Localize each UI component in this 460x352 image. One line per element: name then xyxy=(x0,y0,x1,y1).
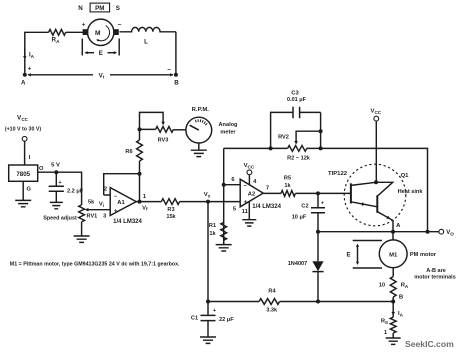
svg-text:C3: C3 xyxy=(291,91,299,97)
svg-text:M1: M1 xyxy=(389,252,398,258)
svg-text:Vi: Vi xyxy=(99,202,104,208)
resistor R4 xyxy=(259,288,280,313)
svg-text:+: + xyxy=(28,67,32,73)
capacitor C3 xyxy=(271,91,321,149)
pin 11 ground wire xyxy=(248,202,250,220)
motor symbol M xyxy=(82,19,122,45)
capacitor C2 xyxy=(292,193,325,231)
svg-text:R5: R5 xyxy=(284,175,291,181)
svg-text:G: G xyxy=(27,187,32,193)
node xyxy=(426,230,430,234)
svg-text:1N4007: 1N4007 xyxy=(288,261,308,267)
ground xyxy=(200,337,216,343)
ground xyxy=(191,150,207,156)
capacitor 2.2uF xyxy=(49,172,84,202)
svg-text:15k: 15k xyxy=(166,214,176,220)
pin 6 wire xyxy=(224,177,241,185)
svg-text:RV1: RV1 xyxy=(87,214,98,220)
PM field magnet box xyxy=(90,3,110,12)
svg-text:meter: meter xyxy=(220,130,236,136)
svg-text:+: + xyxy=(114,208,118,214)
svg-text:Q1: Q1 xyxy=(401,173,410,179)
pin label O xyxy=(39,166,44,172)
node Vf xyxy=(138,200,148,212)
wire feedback right xyxy=(307,148,428,231)
label N xyxy=(78,5,83,12)
svg-text:Speed adjust: Speed adjust xyxy=(43,216,77,222)
svg-text:Analog: Analog xyxy=(219,122,239,128)
svg-text:R2 ~ 12k: R2 ~ 12k xyxy=(287,156,311,162)
svg-text:Vt: Vt xyxy=(99,72,105,79)
svg-text:1: 1 xyxy=(143,194,147,200)
svg-text:1k: 1k xyxy=(209,231,216,237)
wire xyxy=(263,192,281,194)
terminal VO xyxy=(439,229,454,236)
VCC input terminal xyxy=(5,115,42,142)
svg-text:4: 4 xyxy=(253,179,257,185)
node xyxy=(316,300,320,304)
dimension E motor xyxy=(346,241,382,269)
node 5V xyxy=(51,163,60,175)
svg-text:VO: VO xyxy=(446,230,454,236)
pin label G xyxy=(27,187,32,193)
svg-text:3.3k: 3.3k xyxy=(266,307,278,313)
analog meter RPM xyxy=(186,107,212,143)
pin 7 label xyxy=(266,185,269,191)
svg-text:N: N xyxy=(78,5,83,12)
svg-text:+: + xyxy=(321,201,324,207)
node B xyxy=(391,295,403,304)
svg-text:−: − xyxy=(114,194,118,200)
svg-text:TIP122: TIP122 xyxy=(328,171,348,177)
svg-text:A-B are: A-B are xyxy=(426,268,446,274)
label Speed adjust xyxy=(43,216,77,222)
svg-text:R.P.M.: R.P.M. xyxy=(192,107,210,113)
label Vt bottom wire xyxy=(28,72,174,79)
svg-text:motor terminals: motor terminals xyxy=(414,275,456,281)
svg-text:RS: RS xyxy=(381,319,388,325)
svg-text:10: 10 xyxy=(379,283,385,289)
ground xyxy=(50,202,63,208)
ground xyxy=(74,236,90,242)
svg-text:VCC: VCC xyxy=(244,163,255,169)
svg-text:10 μF: 10 μF xyxy=(292,215,307,221)
wire pin6 branch xyxy=(223,148,225,244)
wire xyxy=(392,297,394,302)
potentiometer RV1 xyxy=(79,200,111,222)
feedback wire A1 xyxy=(104,174,140,195)
svg-text:22 μF: 22 μF xyxy=(219,317,234,323)
potentiometer RV3 xyxy=(140,112,174,143)
node Vx xyxy=(204,192,211,203)
wire xyxy=(392,302,394,318)
resistor R6 xyxy=(125,129,142,167)
wire xyxy=(392,268,394,277)
wire xyxy=(38,172,82,205)
label Analog meter xyxy=(219,122,239,136)
op-amp A2 xyxy=(240,179,263,207)
transistor T2 of Q1 xyxy=(376,182,393,231)
node collector junction xyxy=(374,180,378,184)
svg-text:C2: C2 xyxy=(301,204,308,210)
svg-text:7805: 7805 xyxy=(16,171,30,178)
ground xyxy=(216,245,232,251)
node B xyxy=(167,67,179,87)
svg-text:M: M xyxy=(95,30,101,37)
svg-text:5k: 5k xyxy=(88,200,95,206)
node xyxy=(319,129,323,133)
svg-text:E: E xyxy=(99,50,103,57)
pin 5 label xyxy=(233,207,237,213)
node xyxy=(222,183,226,187)
motor M1 xyxy=(379,240,407,268)
node xyxy=(269,146,273,150)
wire xyxy=(207,202,209,302)
svg-text:L: L xyxy=(144,39,148,46)
svg-text:S: S xyxy=(116,5,120,12)
wire xyxy=(81,222,83,236)
dimension E motor model xyxy=(82,39,119,58)
current arrow IA xyxy=(23,48,35,60)
wire A1 feedback upper xyxy=(139,167,141,174)
wire xyxy=(317,232,319,262)
svg-text:1/4 LM324: 1/4 LM324 xyxy=(252,204,281,210)
svg-text:3: 3 xyxy=(103,214,107,220)
svg-text:R4: R4 xyxy=(268,288,276,294)
pin 4 label xyxy=(253,179,257,185)
svg-text:A2: A2 xyxy=(248,192,255,198)
transistor Q1 dashed outline xyxy=(344,164,406,226)
label S xyxy=(116,5,120,12)
svg-text:1/4 LM324: 1/4 LM324 xyxy=(113,219,142,225)
capacitor C1 xyxy=(191,302,234,338)
note M1 Pittman xyxy=(10,262,180,268)
VCC A2 terminal xyxy=(244,163,255,185)
wire xyxy=(392,333,394,338)
node xyxy=(138,172,142,176)
svg-text:R3: R3 xyxy=(167,207,174,213)
wire xyxy=(22,181,24,200)
svg-text:0.01 μF: 0.01 μF xyxy=(287,97,307,103)
ground xyxy=(15,200,31,206)
wire xyxy=(66,31,89,33)
potentiometer RV2 xyxy=(278,131,320,161)
current arrow IA motor xyxy=(391,311,403,317)
svg-text:IA: IA xyxy=(29,53,35,59)
wire xyxy=(317,272,319,302)
label A-B are motor terminals xyxy=(414,268,456,281)
op-amp A1 xyxy=(110,188,136,216)
svg-text:B: B xyxy=(174,80,179,87)
label 1/4 LM324 xyxy=(113,219,142,225)
svg-text:2.2 μF: 2.2 μF xyxy=(67,189,84,195)
svg-text:R6: R6 xyxy=(125,149,132,155)
svg-text:RV3: RV3 xyxy=(158,138,169,144)
ground xyxy=(386,338,401,344)
wire xyxy=(136,201,161,203)
resistor RA motor xyxy=(379,277,409,297)
pin 1 label xyxy=(143,194,147,200)
svg-text:−: − xyxy=(167,67,171,74)
svg-text:B: B xyxy=(399,295,403,301)
svg-text:Heat sink: Heat sink xyxy=(398,189,424,195)
svg-text:SeekIC.com: SeekIC.com xyxy=(405,339,454,349)
node xyxy=(206,300,210,304)
wire xyxy=(139,174,141,202)
svg-text:+: + xyxy=(82,23,86,29)
wire xyxy=(320,112,322,148)
svg-text:IA: IA xyxy=(398,311,404,317)
svg-text:R1: R1 xyxy=(209,223,216,229)
wire output xyxy=(318,231,439,233)
svg-text:5 V: 5 V xyxy=(51,163,60,169)
svg-text:VCC: VCC xyxy=(371,109,382,115)
svg-text:+: + xyxy=(213,308,216,314)
svg-text:A: A xyxy=(396,223,401,229)
wire xyxy=(180,201,241,203)
svg-text:O: O xyxy=(39,166,44,172)
node C2-diode xyxy=(316,230,320,234)
wire xyxy=(25,141,31,165)
resistor R1 xyxy=(209,222,227,240)
wire xyxy=(175,32,177,73)
svg-text:PM: PM xyxy=(95,5,104,12)
wire xyxy=(25,32,49,73)
pin 11 label xyxy=(242,209,249,215)
svg-text:A1: A1 xyxy=(117,200,125,206)
regulator 7805 xyxy=(9,165,38,181)
wire xyxy=(198,143,200,150)
VCC Q1 terminal xyxy=(371,109,382,183)
svg-text:M1 = Pittman motor, type GM941: M1 = Pittman motor, type GM9413G235 24 V… xyxy=(10,262,180,268)
pin 3 label xyxy=(103,214,107,220)
label Heat sink xyxy=(398,189,424,195)
svg-text:(+10 V to 30 V): (+10 V to 30 V) xyxy=(5,127,42,133)
node xyxy=(319,146,323,150)
node xyxy=(316,191,320,195)
resistor R5 xyxy=(281,175,295,196)
node A xyxy=(391,223,401,234)
svg-text:5: 5 xyxy=(233,207,237,213)
svg-text:1: 1 xyxy=(384,330,387,336)
transistor T1 of Q1 xyxy=(351,182,377,207)
svg-text:Vf: Vf xyxy=(142,205,148,211)
label PM motor xyxy=(410,252,437,258)
svg-text:I: I xyxy=(29,155,31,161)
wire xyxy=(208,301,259,303)
svg-text:1k: 1k xyxy=(284,183,291,189)
svg-text:+: + xyxy=(58,180,62,186)
svg-text:Vx: Vx xyxy=(204,192,211,198)
resistor RA xyxy=(49,29,66,44)
label TIP122 xyxy=(328,171,348,177)
wire feedback left xyxy=(224,147,288,149)
pin 2 wire xyxy=(104,187,111,196)
svg-text:A: A xyxy=(21,80,26,87)
svg-text:RV2: RV2 xyxy=(278,135,289,141)
svg-text:−: − xyxy=(244,184,248,190)
wire xyxy=(295,192,351,194)
wire xyxy=(392,232,394,240)
label 1/4 LM324 xyxy=(252,204,281,210)
svg-text:VCC: VCC xyxy=(17,115,29,122)
resistor R3 xyxy=(161,199,179,220)
svg-text:RA: RA xyxy=(52,37,61,44)
wire xyxy=(173,129,186,131)
svg-text:E: E xyxy=(346,252,350,258)
svg-text:C1: C1 xyxy=(191,315,198,321)
resistor RS xyxy=(381,317,396,336)
node A xyxy=(21,67,32,87)
svg-text:11: 11 xyxy=(242,209,249,215)
svg-text:RA: RA xyxy=(401,283,409,289)
watermark SeekIC.com xyxy=(405,339,454,349)
inductor L xyxy=(120,27,177,45)
wire xyxy=(223,240,225,244)
label Q1 xyxy=(401,173,410,179)
diode 1N4007 xyxy=(288,261,324,272)
svg-text:PM motor: PM motor xyxy=(410,252,437,258)
wire xyxy=(280,301,394,303)
ground xyxy=(242,220,256,226)
node xyxy=(138,127,142,131)
svg-text:6: 6 xyxy=(231,177,235,183)
svg-text:7: 7 xyxy=(266,185,269,191)
svg-text:−: − xyxy=(118,22,122,29)
